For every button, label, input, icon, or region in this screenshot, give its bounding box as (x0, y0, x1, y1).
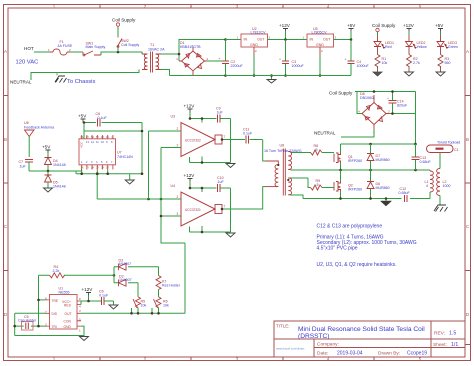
svg-text:IRFP260: IRFP260 (348, 159, 362, 163)
op-amp driver U4 UCC37321 (181, 192, 215, 226)
svg-text:+: + (219, 57, 221, 61)
resistor R5 10k (pot) (137, 283, 139, 297)
svg-text:A: A (466, 49, 469, 54)
regulator U5 L7805CV (307, 34, 334, 47)
svg-text:16VAC 2A: 16VAC 2A (148, 48, 165, 52)
resistor R4 (39, 274, 115, 276)
capacitor C13 (415, 144, 417, 170)
top +V rail from C2 to U2 (226, 39, 242, 41)
svg-text:+5V: +5V (42, 145, 51, 150)
long signal line to driver inputs (97, 198, 181, 200)
U3 input pin 2 wire (149, 130, 182, 132)
svg-text:+5V: +5V (347, 23, 356, 28)
U4 input pin 2 wire (148, 198, 182, 200)
svg-text:+: + (387, 97, 389, 101)
R4 riser down to NE555 (38, 275, 40, 326)
svg-text:U2, U3, Q1, & Q2 require heats: U2, U3, Q1, & Q2 require heatsinks. (317, 262, 397, 268)
resistor R2 (407, 47, 412, 73)
svg-text:Toroid Topload: Toroid Topload (437, 141, 460, 145)
svg-text:16 Turn TriFilar 22AWG: 16 Turn TriFilar 22AWG (264, 149, 302, 153)
bottom ground rail (226, 75, 352, 77)
diode D7 MUR860 (370, 144, 372, 170)
svg-text:Coil Supply: Coil Supply (329, 91, 353, 96)
svg-text:IN: IN (244, 38, 248, 42)
svg-text:(DRSSTC): (DRSSTC) (298, 333, 330, 340)
transformer T1 (142, 52, 161, 73)
ground U4 (226, 233, 235, 237)
regulator U2 L7812CV (241, 34, 268, 47)
wire D1 + output to C2 (207, 60, 226, 62)
svg-text:1N4007: 1N4007 (119, 262, 132, 266)
oscillator output drop from U7 rail (96, 174, 98, 199)
THR pin wire (39, 299, 46, 301)
svg-text:0.1uF: 0.1uF (98, 116, 108, 120)
ground U7 (129, 174, 131, 180)
svg-text:1N4007: 1N4007 (119, 278, 132, 282)
svg-text:OUT: OUT (65, 312, 72, 316)
svg-text:+12V: +12V (82, 287, 94, 292)
frame row letters right (466, 49, 470, 317)
ground for C16 (109, 305, 118, 309)
title block box (274, 321, 465, 357)
svg-text:0.1uF: 0.1uF (99, 294, 109, 298)
svg-text:10k: 10k (382, 61, 388, 65)
svg-text:5: 5 (317, 183, 319, 187)
svg-text:HOT: HOT (24, 46, 34, 51)
svg-text:Coil Supply: Coil Supply (112, 18, 136, 23)
chassis stub (56, 73, 58, 76)
TRI line with capacitor C5 (cap holder) (15, 325, 46, 327)
inverter IC U7 74HC14N (79, 139, 116, 165)
resistor R8 (gate Q1) (291, 150, 335, 155)
ground (power, filled) (385, 199, 387, 202)
svg-text:0.68uF: 0.68uF (399, 191, 411, 195)
U7 bottom pin stubs (82, 165, 113, 170)
riser to U3 pin2 (148, 131, 150, 199)
U7 bottom rail (76, 170, 142, 174)
svg-text:Red: Red (385, 45, 392, 49)
svg-text:OUT: OUT (323, 38, 331, 42)
ground LED1 (373, 72, 382, 76)
svg-text:VCC: VCC (80, 141, 84, 148)
notes text block (317, 224, 417, 269)
wire T1 secondary bottom to bottom rail (161, 70, 170, 76)
LED2 (406, 42, 418, 49)
wire bridge + out to C14 and right edge (389, 92, 416, 145)
svg-text:GND: GND (64, 325, 72, 329)
U4 input pin 3 wire (161, 215, 181, 217)
svg-text:6A: 6A (81, 136, 84, 139)
ground U3 (226, 164, 235, 168)
svg-text:A: A (4, 49, 7, 54)
capacitor C2 (225, 40, 227, 76)
svg-text:Green: Green (448, 45, 458, 49)
ground symbol (main rail) (271, 76, 273, 80)
svg-text:RES: RES (64, 304, 72, 308)
U7 pin name marks (81, 136, 114, 170)
switch SW2 (118, 36, 122, 48)
chassis symbol (55, 76, 67, 83)
svg-text:0.1uF: 0.1uF (243, 132, 253, 136)
fuse F1 (50, 49, 70, 55)
switch SW1 (84, 51, 101, 55)
diode D2 1N4007 (114, 282, 138, 284)
svg-text:3: 3 (177, 212, 179, 216)
inductor L1 (primary) (430, 170, 433, 193)
ground LED3 (436, 72, 445, 76)
frame column ticks bottom (100, 357, 374, 361)
svg-text:1A: 1A (81, 166, 84, 169)
U5 GND pin wire (319, 47, 321, 55)
svg-text:5A: 5A (91, 136, 94, 139)
svg-text:1/1: 1/1 (451, 342, 458, 348)
node wire antenna to U7 input (29, 169, 82, 171)
svg-text:B: B (466, 137, 469, 142)
svg-text:Main Supply: Main Supply (86, 45, 106, 49)
svg-text:NEUTRAL: NEUTRAL (10, 80, 32, 85)
bridge rectifier D1 (179, 48, 207, 76)
frame row letters left (4, 49, 8, 317)
diode D3 1N4007 (114, 266, 159, 268)
svg-text:+12V: +12V (403, 23, 415, 28)
LED1 (374, 42, 386, 49)
svg-text:T1: T1 (150, 43, 154, 47)
svg-text:U6: U6 (280, 144, 285, 148)
svg-text:+12V: +12V (279, 23, 291, 28)
svg-text:U4: U4 (171, 184, 176, 188)
capacitor C4 (350, 40, 352, 76)
svg-text:2: 2 (177, 127, 179, 131)
svg-text:NE555: NE555 (59, 290, 70, 294)
svg-text:-: - (373, 130, 374, 134)
diode D5 1N4148 (47, 171, 49, 175)
svg-text:+12V: +12V (184, 104, 196, 109)
svg-text:IRFP260: IRFP260 (348, 188, 362, 192)
svg-text:Company:: Company: (317, 342, 339, 348)
svg-text:Coil Supply: Coil Supply (121, 43, 139, 47)
resistor R9 (gate Q2) (291, 178, 335, 188)
svg-text:2019-03-04: 2019-03-04 (337, 351, 363, 357)
transistor Q1 IRFP260 (340, 144, 342, 170)
svg-text:DIS: DIS (52, 312, 58, 316)
svg-text:10k: 10k (163, 303, 169, 307)
svg-text:6Y: 6Y (86, 136, 89, 139)
svg-text:Date:: Date: (317, 351, 328, 357)
svg-text:1uF: 1uF (217, 111, 224, 115)
svg-text:GND: GND (250, 43, 258, 47)
svg-text:C12 & C13 are polypropylene: C12 & C13 are polypropylene (317, 224, 383, 230)
resistor R3 (438, 47, 443, 73)
svg-text:L7805CV: L7805CV (312, 30, 328, 34)
U1 pin stubs (46, 300, 82, 326)
svg-text:+12V: +12V (184, 173, 196, 178)
wire coil supply into D8 box (355, 92, 416, 114)
capacitor C3 (285, 40, 287, 76)
svg-text:GND: GND (316, 43, 324, 47)
DIS pin wire to left column (15, 312, 46, 314)
enable line corner to OUT riser (0, 0, 1, 1)
svg-text:Res Holder: Res Holder (162, 284, 181, 288)
svg-text:MUR860: MUR860 (376, 158, 390, 162)
wire SW1 to T1 (101, 52, 142, 55)
svg-text:1N4148: 1N4148 (53, 185, 66, 189)
svg-text:+: + (373, 96, 375, 100)
frame column numbers top (53, 4, 422, 9)
svg-text:CON: CON (64, 320, 72, 324)
svg-text:7: 7 (224, 205, 226, 209)
ground D5 (44, 188, 53, 192)
svg-text:2200uF: 2200uF (231, 64, 244, 68)
svg-text:UCC37322: UCC37322 (185, 139, 201, 143)
svg-text:3: 3 (177, 144, 179, 148)
svg-text:C1: C1 (454, 148, 459, 152)
diode D4 1N4148 (45, 158, 52, 165)
diode D6 MUR860 (370, 170, 372, 199)
inductor L2 (secondary) (437, 169, 440, 196)
enable net riser (U3 pin3 / U4 pin3 / NE555 out) (161, 148, 185, 314)
frame row ticks left (4, 96, 9, 271)
resistor K7 Res Holder (158, 267, 160, 276)
svg-text:+: + (192, 44, 194, 48)
svg-text:C7: C7 (19, 160, 24, 164)
chassis ground under L2 (439, 196, 441, 206)
U7 decoupling line + capacitor C6 (83, 123, 142, 174)
svg-text:Feedback Antenna: Feedback Antenna (24, 125, 54, 129)
svg-text:+5V: +5V (78, 114, 87, 119)
ground LED2 (405, 72, 414, 76)
svg-text:IN: IN (310, 38, 314, 42)
OUT wire to risers (81, 312, 185, 314)
U3 input pin 3 wire (161, 147, 181, 149)
resistor R6 10k (pot) (154, 297, 162, 308)
timer U1 NE555 (50, 295, 78, 330)
frame row ticks right (465, 96, 471, 345)
svg-text:OUT: OUT (257, 38, 265, 42)
wire bridge - to NEUTRAL (341, 130, 374, 137)
svg-text:REV:: REV: (434, 331, 445, 337)
op-amp driver U3 UCC37322 (181, 123, 215, 157)
U4 decoupling top line + capacitor C10 (190, 188, 231, 232)
svg-text:1N4148: 1N4148 (53, 163, 66, 167)
svg-text:Coil Supply: Coil Supply (372, 23, 396, 28)
svg-text:NEUTRAL: NEUTRAL (314, 131, 336, 136)
capacitor C14 (392, 92, 394, 114)
svg-text:Mini Dual Resonance Solid Stat: Mini Dual Resonance Solid State Tesla Co… (298, 326, 425, 333)
svg-text:1uF: 1uF (218, 180, 225, 184)
U2 GND pin wire (253, 47, 255, 55)
svg-text:1.5: 1.5 (449, 331, 456, 337)
svg-text:10k: 10k (141, 303, 147, 307)
svg-text:+: + (279, 58, 281, 62)
svg-text:2.2k: 2.2k (53, 269, 60, 273)
svg-text:Drawn By:: Drawn By: (378, 351, 400, 357)
wire U5 out to C4 (334, 39, 352, 41)
svg-text:B: B (4, 137, 7, 142)
capacitor C12 (on bottom rail) (405, 195, 408, 202)
wire U4 output into GDT primary bottom (222, 187, 266, 209)
U3 decoupling top line + capacitor C9 (190, 119, 231, 163)
svg-text:TRE: TRE (52, 299, 59, 303)
U4 output junction (221, 208, 224, 211)
wire HOT to fuse (34, 51, 50, 53)
svg-text:To Chassis: To Chassis (67, 79, 95, 85)
svg-text:2A: 2A (91, 166, 94, 169)
svg-text:0.68uF: 0.68uF (420, 160, 432, 164)
bridge rectifier D8 (362, 95, 389, 130)
wire U3 output into GDT primary top (263, 140, 266, 162)
capacitor C7 (25, 160, 33, 163)
mid rail (bridge output) (291, 169, 431, 171)
svg-text:4.5"x10" PVC pipe: 4.5"x10" PVC pipe (317, 246, 358, 252)
D1 bridge green box wires (170, 40, 226, 76)
svg-text:1000uF: 1000uF (357, 64, 370, 68)
svg-text:Cap Holder: Cap Holder (18, 319, 37, 323)
bottom rail of half bridge (291, 195, 431, 199)
svg-text:+: + (345, 58, 347, 62)
svg-text:7: 7 (224, 135, 226, 139)
svg-text:L7812CV: L7812CV (251, 30, 267, 34)
svg-text:-: - (192, 77, 193, 81)
wire fuse to SW1 (70, 51, 83, 53)
svg-text:74HC14N: 74HC14N (117, 155, 133, 159)
svg-text:Yellow: Yellow (417, 45, 428, 49)
svg-text:2.7k: 2.7k (413, 61, 420, 65)
svg-text:4: 4 (426, 184, 428, 188)
svg-text:1uF: 1uF (20, 165, 27, 169)
svg-text:2: 2 (177, 195, 179, 199)
D3-D2 left vertical (113, 267, 115, 283)
wire topload to L2 (439, 153, 441, 169)
svg-text:TRI: TRI (52, 325, 57, 329)
junction at SW2 drop (117, 51, 120, 54)
LED3 (437, 42, 449, 49)
left column riser (14, 313, 16, 335)
NEUTRAL wire (31, 70, 139, 81)
svg-text:Ccope19: Ccope19 (407, 351, 427, 357)
frame column ticks top (100, 5, 374, 9)
svg-text:1000: 1000 (443, 184, 451, 188)
svg-text:1Y: 1Y (86, 166, 89, 169)
svg-text:120 VAC: 120 VAC (16, 60, 39, 66)
transistor Q2 IRFP260 (340, 170, 342, 199)
GDT transformer U6 (265, 149, 292, 196)
svg-text:560: 560 (445, 61, 451, 65)
svg-text:MUR860: MUR860 (376, 186, 390, 190)
svg-text:UCC37321: UCC37321 (185, 208, 201, 212)
svg-text:www.tinyurl.com/drsstc: www.tinyurl.com/drsstc (276, 347, 305, 351)
GND pin wire + ground (15, 326, 84, 336)
VCC/RES line + capacitor C16 (81, 301, 114, 305)
U7 top pin stubs (82, 135, 113, 139)
svg-text:820uF: 820uF (397, 104, 408, 108)
svg-text:+5V: +5V (435, 23, 444, 28)
frame column numbers bottom (53, 357, 422, 362)
resistor R1 (375, 47, 380, 73)
half-bridge top rail (341, 143, 416, 145)
U3 output wire + capacitor C11 (222, 139, 263, 141)
svg-text:TITLE:: TITLE: (276, 324, 290, 329)
svg-text:5: 5 (316, 148, 318, 152)
wire T1 secondary top to D1 box (161, 53, 179, 55)
svg-text:Sheet:: Sheet: (433, 342, 447, 348)
svg-text:U3: U3 (171, 115, 176, 119)
svg-text:1000uF: 1000uF (292, 64, 305, 68)
wire U2 out to U5 in (268, 39, 308, 41)
